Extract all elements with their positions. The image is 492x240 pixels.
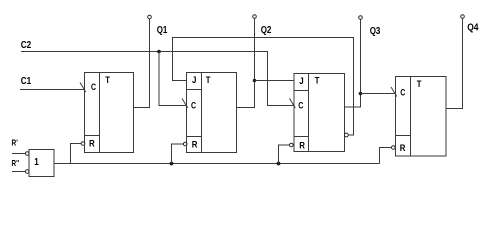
svg-text:C2: C2 <box>21 40 32 51</box>
label Q1 <box>157 25 168 36</box>
label gate value 1 <box>34 157 39 168</box>
terminal Q3 circle <box>359 16 363 20</box>
svg-text:C1: C1 <box>21 76 32 87</box>
label Q2 <box>261 25 272 36</box>
wire FF1 output Q1 up to terminal <box>134 19 150 108</box>
svg-text:1: 1 <box>34 157 39 168</box>
terminal Q4 circle <box>461 15 465 19</box>
pin label FF3 J <box>299 76 303 87</box>
wire C2 net: horizontal run, corner down to FF3 C input <box>21 52 294 106</box>
label FF3 type T <box>315 76 320 87</box>
node: reset bus junction dot at FF3 tap <box>277 162 281 166</box>
svg-text:R': R' <box>12 138 18 148</box>
svg-text:R: R <box>89 139 95 150</box>
wire reset tap to FF3 R <box>279 145 290 164</box>
label FF2 type T <box>206 75 211 86</box>
node: reset bus junction dot at FF2 tap <box>170 162 174 166</box>
label Q4 <box>467 23 479 34</box>
flip-flop FF4 (T) box <box>396 77 447 157</box>
label FF1 type T <box>105 75 110 86</box>
svg-text:C: C <box>400 88 405 99</box>
svg-text:C: C <box>298 101 303 112</box>
svg-text:Q2: Q2 <box>261 25 272 36</box>
svg-text:T: T <box>417 79 422 90</box>
svg-text:T: T <box>315 76 320 87</box>
wire reset tap to FF2 R <box>172 144 184 164</box>
pin FF3 inverted output bubble <box>345 133 349 137</box>
label R' <box>12 138 18 148</box>
terminal Q2 circle <box>253 15 257 19</box>
svg-text:J: J <box>299 76 303 87</box>
flip-flop FF3 (JK) box <box>294 74 345 152</box>
flip-flop FF2 (JK) box <box>187 73 237 153</box>
pin label FF3 R <box>299 141 305 152</box>
wire R'' input <box>12 171 26 173</box>
pin bubble FF2 R <box>183 142 187 146</box>
wire Q3 to FF4 C input <box>361 93 396 95</box>
pin label FF2 C <box>191 101 196 112</box>
label R'' <box>12 158 20 168</box>
pin bubble FF1 R <box>81 142 85 146</box>
label C1 <box>21 76 32 87</box>
pin label FF3 C <box>298 101 303 112</box>
pin label FF4 R <box>400 143 406 154</box>
svg-text:Q3: Q3 <box>370 26 381 37</box>
pin label FF1 R <box>89 139 95 150</box>
label C2 <box>21 40 32 51</box>
pin bubble R' input <box>25 152 29 156</box>
pin FF1 C dynamic input slash <box>80 83 86 93</box>
svg-text:C: C <box>191 101 196 112</box>
wire Q2 to FF3 J input <box>255 80 295 82</box>
pin bubble R'' input <box>25 170 29 174</box>
wire R' input <box>12 153 26 155</box>
terminal Q1 circle <box>148 15 152 19</box>
node: Q2 junction dot feeding FF3 J <box>253 79 257 83</box>
node: C2 tap junction dot to FF2 C <box>157 50 161 54</box>
node: Q3 junction dot feeding FF4 C <box>359 92 363 96</box>
wire reset bus along bottom <box>54 163 380 165</box>
svg-text:T: T <box>206 75 211 86</box>
wire FF4 output Q4 up to terminal <box>446 19 463 109</box>
wire reset tap to FF4 R <box>380 148 392 164</box>
label FF4 type T <box>417 79 422 90</box>
pin FF4 C dynamic input slash <box>391 87 397 97</box>
flip-flop FF1 (T) box <box>85 73 134 153</box>
wire FF3 output Q3 up to terminal <box>345 20 361 108</box>
wire C1 to FF1 C input <box>20 89 85 91</box>
pin label FF2 R <box>192 140 198 151</box>
svg-text:T: T <box>105 75 110 86</box>
label Q3 <box>370 26 381 37</box>
wire C2 tap down to FF2 C input <box>159 52 187 106</box>
svg-text:C: C <box>91 82 96 93</box>
svg-text:Q1: Q1 <box>157 25 168 36</box>
wire reset tap to FF1 R <box>71 144 82 164</box>
pin label FF1 C <box>91 82 96 93</box>
pin bubble FF3 R <box>290 143 294 147</box>
pin FF3 C dynamic input slash <box>290 99 296 109</box>
svg-text:R: R <box>299 141 305 152</box>
pin bubble FF4 R <box>392 146 396 150</box>
wire FF2 output Q2 up to terminal <box>237 19 255 108</box>
gate U5 "1" (reset NAND) box <box>29 150 54 177</box>
pin label FF2 J <box>192 75 196 86</box>
pin label FF4 C <box>400 88 405 99</box>
svg-text:R: R <box>192 140 198 151</box>
svg-text:R'': R'' <box>12 158 20 168</box>
svg-text:J: J <box>192 75 196 86</box>
pin FF2 C dynamic input slash <box>182 99 188 109</box>
svg-text:Q4: Q4 <box>467 23 479 34</box>
svg-text:R: R <box>400 143 406 154</box>
wire FF3 inverted output feedback to FF2 J input <box>173 38 354 136</box>
